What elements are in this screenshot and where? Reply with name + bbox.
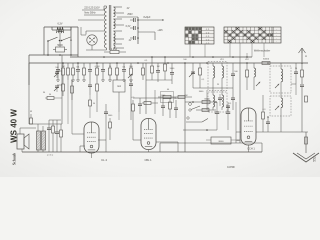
svg-text:·1·2·: ·1·2·: [205, 39, 210, 41]
resistor R29 above V2: [132, 100, 134, 104]
wire primary top lead: [104, 5, 107, 7]
resistor R35 on y97: [178, 96, 185, 99]
resistor R36 on y110: [202, 109, 209, 112]
svg-text:CL 4: CL 4: [101, 158, 107, 162]
wire x207 seg: [206, 90, 208, 110]
transformer TR1 core: [108, 5, 110, 50]
resistor R8: [96, 63, 98, 68]
resistor R14: [142, 63, 144, 68]
wire mains left drop: [28, 55, 30, 85]
resistor R32 right of V3: [262, 95, 264, 112]
wire y122 link: [186, 121, 202, 123]
output transformer TR2 secondary: [42, 131, 46, 150]
resistor R21 50k: [246, 63, 248, 70]
resistor R3: [67, 63, 69, 68]
switch S1a mains: [47, 40, 49, 42]
wire osc coupling: [280, 116, 282, 132]
svg-text:8000: 8000: [219, 141, 225, 143]
wire rect cathode: [91, 46, 93, 50]
IF transformer coil L2: [222, 66, 224, 78]
wire x62 long drop: [61, 55, 63, 124]
detector tube V2 CBL1: [141, 119, 156, 150]
wire lamp to box: [51, 27, 53, 30]
resistor R15 lower: [62, 84, 65, 91]
resistor R6: [83, 63, 85, 68]
svg-text:Schaub: Schaub: [13, 153, 17, 165]
capacitor C25: [231, 73, 235, 75]
wire x90 drop: [89, 95, 91, 100]
wire box leads: [206, 130, 208, 137]
svg-text:mA: mA: [117, 84, 121, 88]
capacitor C1 5000pF mains filter: [56, 47, 65, 52]
transformer TR1 secondary winding c: [114, 31, 116, 44]
wire table A stubs: [189, 44, 191, 57]
wire ground feed: [302, 131, 306, 133]
wire y130 link: [183, 129, 217, 131]
resistor R31 above V2: [169, 98, 171, 102]
wire y110 link: [196, 109, 216, 111]
wire y98 link: [133, 97, 176, 99]
capacitor C38 pair a: [215, 111, 220, 113]
svg-text:·1·2·: ·1·2·: [205, 29, 210, 31]
resistor R38 ground lead: [305, 137, 308, 144]
wire right edge drop: [301, 63, 303, 70]
capacitor C3 8uF electrolytic: [133, 26, 135, 30]
wire center links: [146, 79, 172, 81]
fuse F1: [110, 50, 119, 53]
wire speaker leads: [19, 128, 21, 134]
capacitor C35 right of V3: [266, 121, 270, 123]
resistor R25 tone: [30, 114, 32, 118]
wire center drop x146: [145, 63, 147, 114]
switch S1b mains: [61, 40, 63, 42]
svg-text:Cr/PDF: Cr/PDF: [227, 166, 236, 169]
wire x236 drop2: [235, 102, 237, 132]
speaker SP1: [17, 134, 24, 149]
resistor R23 edge: [301, 70, 304, 77]
svg-text:5000: 5000: [57, 44, 63, 47]
capacitor C30: [55, 131, 59, 133]
table wave-band switch chart B: [224, 27, 281, 44]
junction bus dots: [62, 62, 64, 64]
wire x155 drop: [154, 90, 156, 114]
wire edge to ground: [301, 95, 303, 132]
svg-text:1,25A: 1,25A: [111, 48, 117, 51]
coil L5 antenna: [254, 68, 256, 77]
IF can 2 dashed box: [208, 92, 227, 112]
wire B+ drop to bus: [167, 20, 169, 57]
output transformer TR2 primary: [37, 131, 41, 150]
wire cap C1 leads: [53, 49, 56, 51]
trimmer T1 diagonal: [189, 72, 194, 77]
wire y114 link: [140, 114, 163, 116]
junction B+ c: [137, 37, 139, 39]
wire label leader: [246, 53, 248, 57]
wire V1 grid: [72, 133, 84, 135]
capacitor C24 padding: [191, 71, 195, 73]
junction mains bottom dots: [47, 54, 49, 56]
resistor R30 above V2: [144, 102, 151, 105]
svg-text:1M: 1M: [157, 66, 160, 68]
capacitor C33 above V2: [161, 105, 165, 107]
capacitor C4 electrolytic: [133, 36, 135, 40]
wire vertical x185: [184, 63, 186, 152]
IF can 1 dashed box: [208, 62, 227, 91]
resistor R37 30k: [202, 101, 210, 104]
resistor R2: [62, 63, 64, 68]
wire return rail y143: [160, 142, 236, 144]
wire y102 link: [185, 101, 216, 103]
capacitor C11: [89, 63, 91, 69]
coil L6 osc: [281, 69, 283, 82]
wire mains box inner vertical: [70, 27, 72, 39]
wire mains box top: [44, 26, 78, 28]
svg-text:4V: 4V: [127, 8, 130, 10]
oscillator can dashed box upper: [270, 66, 291, 93]
wire V2 pins: [148, 150, 150, 153]
wire fuse drop: [103, 52, 105, 57]
capacitor C5: [57, 63, 59, 69]
transformer TR1 primary winding: [105, 8, 107, 48]
wire x68 drop: [67, 80, 69, 124]
mixer tube V3 CCH1: [241, 108, 256, 145]
wire y120 link: [49, 119, 61, 121]
svg-text:0,5M: 0,5M: [95, 66, 100, 68]
svg-text:8+8µF: 8+8µF: [144, 16, 151, 19]
wire switch feeds: [47, 41, 49, 55]
ground symbol chassis: [293, 153, 319, 162]
wire screen feed: [138, 31, 155, 33]
wire right links: [291, 83, 296, 85]
wire primary bottom lead: [86, 49, 107, 51]
capacitor C41 trimmer b: [55, 85, 59, 87]
capacitor C21 lower: [129, 83, 133, 85]
table tube socket/voltage chart A: [185, 27, 214, 45]
wire bus upper y57: [70, 56, 252, 58]
resistor R28 near V1: [109, 118, 111, 122]
capacitor C23: [171, 63, 173, 72]
svg-text:·1·2·: ·1·2·: [205, 36, 210, 38]
resistor R4: [72, 63, 74, 68]
wire left border drop: [28, 63, 30, 124]
switch S2 contact a: [189, 109, 191, 111]
resistor R17 lower: [96, 84, 99, 91]
resistor R33 small: [47, 97, 54, 100]
capacitor C26: [231, 97, 235, 99]
capacitor C39 pair b: [226, 111, 231, 113]
ground ticks component row: [56, 79, 60, 81]
wire mains box bottom: [29, 54, 78, 56]
svg-text:CBL 1: CBL 1: [144, 158, 152, 162]
trimmer arrow left: [128, 74, 132, 78]
capacitor C36: [218, 97, 222, 99]
wire B+ rail vertical: [137, 17, 139, 44]
junction B+ b: [137, 27, 139, 29]
output tube V1 CL4: [84, 122, 99, 153]
wire grid stopper: [106, 139, 110, 141]
resistor R18: [151, 57, 153, 66]
coil L7 osc lower: [281, 98, 283, 108]
capacitor C32 above V2: [138, 103, 142, 105]
capacitor C27 right: [294, 71, 298, 73]
dial lamp LA1: [57, 27, 64, 33]
svg-text:·1·2·: ·1·2·: [205, 33, 210, 35]
resistor R27: [60, 124, 62, 130]
wire V1 pins: [91, 153, 93, 158]
resistor R10: [109, 63, 111, 68]
resistor R13: [130, 63, 132, 68]
antenna ANT symbol: [301, 50, 303, 62]
resistor R11: [116, 63, 118, 68]
trimmer T2 diagonal: [256, 82, 260, 86]
wire x240 long: [239, 63, 241, 143]
IF transformer coil L1: [213, 66, 215, 78]
oscillator can dashed box lower: [270, 96, 291, 116]
wire x240 drop: [239, 57, 241, 63]
resistor R22: [262, 62, 270, 65]
transformer TR1 secondary winding a: [114, 7, 116, 17]
wire rect anode: [86, 30, 104, 32]
capacitor C9: [77, 63, 79, 69]
wire return rail right: [236, 142, 262, 144]
measuring box MA: [113, 80, 125, 92]
circle pin small: [189, 103, 192, 106]
resistor R20: [199, 63, 201, 68]
svg-text:50000: 50000: [263, 59, 270, 61]
svg-text:30000: 30000: [204, 99, 210, 101]
wire table B stubs: [229, 43, 231, 57]
switch S2 contact b: [187, 117, 189, 119]
junction dots upper bus: [103, 56, 105, 58]
wire y124 link: [29, 123, 62, 125]
wire bus lower y63: [29, 62, 308, 64]
capacitor C37: [226, 105, 230, 107]
wire secondary taps: [114, 6, 123, 8]
svg-text:Wellenschalter: Wellenschalter: [254, 50, 271, 53]
svg-text:4V: 4V: [129, 40, 132, 42]
junction y102: [192, 101, 194, 103]
resistor R16 lower: [71, 86, 74, 93]
wire mains box left: [43, 27, 45, 55]
svg-text:6,3V: 6,3V: [58, 23, 63, 26]
capacitor C20 lower: [88, 84, 92, 86]
IF transformer coil L3: [213, 95, 215, 107]
resistor R19: [164, 57, 166, 64]
wire rect to box: [81, 34, 86, 36]
rectifier tube U1 CY1 socket view: [87, 35, 97, 45]
capacitor C16: [123, 63, 125, 69]
svg-text:a n b u: a n b u: [47, 155, 54, 157]
wire rail drop x185 bottom: [184, 143, 186, 152]
terminal box bottom: [211, 137, 231, 144]
capacitor C34 above V2: [174, 107, 178, 109]
IF transformer coil L4: [222, 95, 224, 107]
svg-text:2M: 2M: [185, 95, 188, 97]
wire MA leads: [116, 75, 118, 80]
svg-text:+245: +245: [157, 30, 163, 32]
wire mains box right vertical: [77, 27, 79, 57]
svg-text:·1·2·: ·1·2·: [205, 43, 210, 45]
transformer TR1 secondary winding d: [114, 45, 116, 48]
svg-text:220 125 110V: 220 125 110V: [84, 7, 100, 10]
wire y97 link: [158, 96, 192, 98]
wire x117 drop2: [118, 112, 120, 120]
trimmer T3 diagonal: [275, 84, 279, 88]
capacitor C40 trimmer a: [55, 71, 59, 73]
capacitor C31 near V1: [104, 111, 108, 113]
trimmer T4 diagonal: [275, 106, 279, 110]
resistor R26: [52, 120, 54, 126]
wire V3 pins: [248, 145, 250, 153]
svg-text:A: A: [305, 54, 307, 58]
capacitor C29 tone: [47, 127, 51, 129]
wire selector taps: [82, 9, 104, 11]
capacitor C28 edge: [300, 84, 304, 86]
svg-text:6,3V: 6,3V: [126, 26, 131, 28]
capacitor C2 8uF electrolytic: [133, 18, 135, 22]
wire y132 to right: [262, 131, 308, 133]
svg-text:250V: 250V: [127, 14, 133, 16]
wire B+ top feed: [117, 16, 138, 18]
transformer TR1 secondary winding b: [114, 19, 116, 29]
wire ground rail y152: [22, 151, 262, 153]
wire TR2 leads: [37, 124, 39, 131]
capacitor C22: [157, 63, 159, 70]
svg-text:Netz 50Hz: Netz 50Hz: [84, 12, 96, 15]
wire B+ to right: [138, 19, 164, 21]
resistor R24 edge: [305, 96, 308, 102]
junction B+ a: [137, 19, 139, 21]
resistor R34 boxed: [163, 95, 171, 98]
wire if link y88: [193, 87, 233, 89]
capacitor C13: [102, 63, 104, 69]
